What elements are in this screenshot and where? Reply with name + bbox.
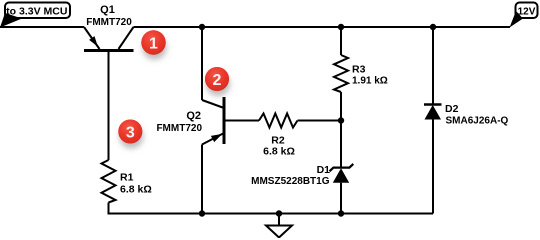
junction: top rail / D2 branch xyxy=(430,24,436,30)
wire: D2 branch vertical from top rail xyxy=(432,27,434,105)
callout badge 1 xyxy=(141,30,165,54)
wire: Q1 base down to R1 xyxy=(108,51,110,161)
junction: ground rail / ground stub xyxy=(276,210,282,216)
svg-text:6.8 kΩ: 6.8 kΩ xyxy=(120,184,152,196)
transistor Q2 (PNP FMMT720) xyxy=(202,97,259,145)
label D2 xyxy=(445,103,459,115)
junction: ground rail / D1 xyxy=(338,210,344,216)
net flag "12V" xyxy=(510,3,538,28)
transistor Q1 (PNP FMMT720) xyxy=(84,27,134,51)
svg-text:R3: R3 xyxy=(352,64,366,76)
label R1 xyxy=(120,172,134,184)
wire: Q2 emitter down to ground rail xyxy=(201,145,203,214)
diode D2 (SMA6J26A-Q) xyxy=(424,105,442,120)
wire: top rail from Q1 collector to 12V flag xyxy=(134,26,511,28)
svg-text:D2: D2 xyxy=(445,103,459,115)
wire: D2 anode to ground rail xyxy=(432,120,434,214)
value label 1.91 kΩ (R3) xyxy=(352,75,388,86)
label R3 xyxy=(352,64,366,76)
value label FMMT720 (Q2) xyxy=(156,123,202,134)
resistor R1 xyxy=(102,160,116,203)
svg-text:3: 3 xyxy=(126,124,135,141)
wire: R2 to R3/D1 branch xyxy=(298,120,342,122)
svg-text:2: 2 xyxy=(213,72,222,89)
value label 6.8 kΩ (R1) xyxy=(120,184,152,196)
value label SMA6J26A-Q (D2) xyxy=(446,116,509,127)
wire: R3 to node xyxy=(340,92,342,121)
wire: Q2 collector vertical xyxy=(201,27,203,100)
wire: D1 anode to ground rail xyxy=(340,183,342,214)
wire: top rail left segment to Q1 emitter xyxy=(0,26,84,28)
ground xyxy=(266,214,292,238)
svg-text:FMMT720: FMMT720 xyxy=(156,123,202,134)
svg-text:R1: R1 xyxy=(120,172,134,184)
callout badge 2 xyxy=(205,67,229,91)
svg-text:D1: D1 xyxy=(317,164,331,176)
junction: top rail / R3 branch xyxy=(338,24,344,30)
svg-text:Q1: Q1 xyxy=(100,4,115,16)
label R2 xyxy=(271,135,285,147)
junction: R2 / R3 / D1 node xyxy=(338,117,344,123)
resistor R3 xyxy=(334,55,348,92)
value label 6.8 kΩ (R2) xyxy=(263,146,295,158)
junction: ground rail / Q2 emitter xyxy=(199,210,205,216)
zener diode D1 (MMSZ5228BT1G) xyxy=(330,164,354,183)
svg-text:1.91 kΩ: 1.91 kΩ xyxy=(352,75,388,86)
resistor R2 xyxy=(259,114,298,128)
svg-text:FMMT720: FMMT720 xyxy=(86,17,132,28)
label Q2 xyxy=(186,110,201,122)
callout badge 3 xyxy=(118,120,142,144)
junction: top rail / Q2 collector xyxy=(199,24,205,30)
wire: R1 bottom to ground rail xyxy=(108,203,110,214)
svg-text:Q2: Q2 xyxy=(186,110,201,122)
wire: node down to D1 xyxy=(340,121,342,168)
wire: top rail to R3 xyxy=(340,27,342,55)
net flag "to 3.3V MCU" xyxy=(0,3,70,28)
svg-text:SMA6J26A-Q: SMA6J26A-Q xyxy=(446,116,509,127)
svg-text:6.8 kΩ: 6.8 kΩ xyxy=(263,146,295,158)
wire: bottom ground rail xyxy=(108,213,434,215)
svg-text:to 3.3V MCU: to 3.3V MCU xyxy=(6,5,67,17)
label D1 xyxy=(317,164,331,176)
value label MMSZ5228BT1G (D1) xyxy=(251,176,330,187)
svg-text:1: 1 xyxy=(149,35,158,52)
label Q1 xyxy=(100,4,115,16)
value label FMMT720 (Q1) xyxy=(86,17,132,28)
svg-text:MMSZ5228BT1G: MMSZ5228BT1G xyxy=(251,176,330,187)
